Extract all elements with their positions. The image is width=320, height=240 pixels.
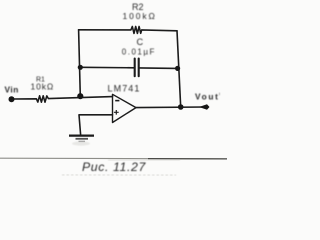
scan speck after Vout [219, 93, 220, 96]
svg-text:Рис. 11.27: Рис. 11.27 [82, 160, 146, 174]
node Vout terminal [199, 104, 210, 110]
svg-text:0.01µF: 0.01µF [122, 47, 156, 56]
svg-text:Vout: Vout [195, 91, 220, 101]
scan smudge below ground [72, 141, 90, 145]
svg-text:Vin: Vin [5, 84, 19, 94]
bottom faint rule [62, 174, 176, 176]
svg-text:C: C [137, 37, 144, 47]
scan fuzz under caption rule [108, 160, 180, 161]
node C right junction [175, 66, 180, 71]
svg-text:10kΩ: 10kΩ [31, 82, 55, 92]
op-amp plus sign [114, 110, 119, 115]
op-amp minus sign [115, 100, 119, 102]
node C left junction [78, 65, 83, 70]
wire C feedback right [139, 67, 178, 70]
node Vin terminal [9, 96, 15, 102]
wire C feedback left [80, 66, 134, 69]
capacitor C plates [135, 59, 139, 77]
wire Vin to R1 to inverting input [12, 96, 113, 102]
wire R2 top feedback [79, 27, 177, 34]
svg-text:LM741: LM741 [108, 83, 141, 93]
wire right feedback vertical [177, 31, 181, 107]
caption rule darker right part [148, 158, 227, 160]
svg-text:100kΩ: 100kΩ [123, 11, 157, 21]
caption rule [0, 157, 227, 160]
node input junction [77, 93, 83, 99]
wire non-inverting input to ground [79, 115, 113, 135]
op-amp U1 triangle [113, 94, 137, 122]
wire output [136, 106, 206, 109]
wire left feedback vertical [79, 30, 81, 96]
node output junction [178, 104, 184, 110]
ground [69, 136, 94, 142]
